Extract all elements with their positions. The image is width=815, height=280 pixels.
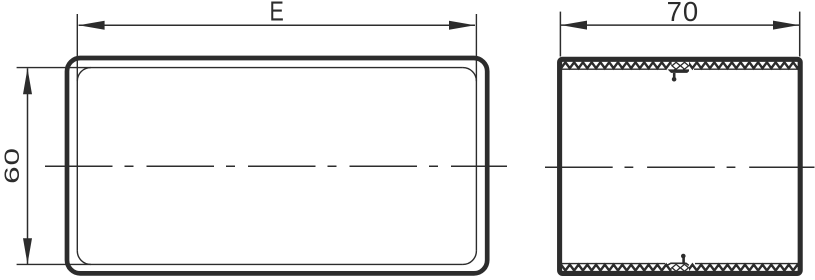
svg-text:E: E xyxy=(269,0,283,27)
svg-text:70: 70 xyxy=(667,0,700,27)
svg-text:60: 60 xyxy=(0,147,24,184)
